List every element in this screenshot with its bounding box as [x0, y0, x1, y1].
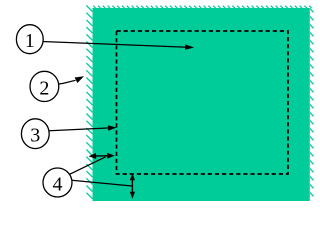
hatched border top edge: [93, 6, 311, 8]
leader line 4 to vertical arrow: [72, 180, 132, 186]
leader arrow 2: [59, 76, 84, 84]
green drawing canvas: [93, 8, 310, 201]
vertical double-headed dimension arrow: [130, 173, 135, 199]
svg-text:2: 2: [39, 77, 49, 99]
svg-text:4: 4: [53, 174, 63, 196]
leader line 4 to horizontal arrow: [69, 157, 106, 175]
callout circle 4: [43, 168, 72, 197]
callout circle 3: [21, 119, 49, 149]
callout circle 1: [16, 25, 43, 54]
leader arrow 1: [42, 42, 194, 50]
horizontal double-headed dimension arrow: [89, 153, 115, 159]
hatched border right edge: [310, 9, 314, 197]
leader arrow 3: [50, 125, 117, 131]
callout circle 2: [30, 71, 59, 101]
svg-text:3: 3: [30, 125, 40, 147]
hatched border left edge: [86, 6, 92, 199]
dashed margin rectangle: [117, 31, 289, 174]
svg-text:1: 1: [25, 30, 35, 52]
